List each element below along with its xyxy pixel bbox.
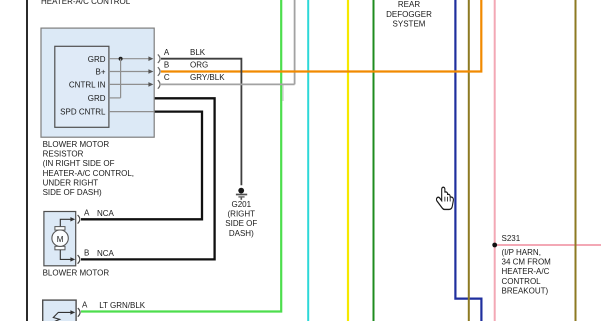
svg-text:REAR: REAR [398,0,420,9]
svg-text:GRD: GRD [88,55,106,64]
wire: ORG orange from pin B up to top [161,0,481,72]
wire: cyan vertical [307,0,309,321]
svg-text:C: C [164,73,170,82]
svg-text:(RIGHT: (RIGHT [228,210,256,219]
pin arc motor A [78,215,80,224]
svg-text:SIDE OF DASH): SIDE OF DASH) [43,188,102,197]
wire: pink vertical [494,0,496,321]
pin arc C [158,80,160,89]
wire: inner SPD CNTRL row 5 [109,111,154,113]
svg-text:NCA: NCA [97,249,115,258]
svg-text:G201: G201 [232,200,252,209]
svg-text:HEATER-A/C CONTROL,: HEATER-A/C CONTROL, [43,169,134,178]
svg-text:S231: S231 [502,234,521,243]
wire: yellow vertical [347,0,349,321]
ground G201 symbol [236,188,247,200]
connector: BLOWER MOTOR box [44,212,76,266]
wire: GRY/BLK vertical to top [294,0,296,84]
svg-text:CNTRL IN: CNTRL IN [69,80,106,89]
switch internal arrow symbol [53,312,71,321]
connector: blower switch box (bottom, cut off) [43,300,76,321]
svg-text:A: A [84,209,90,218]
wire: motor internal to pin B [60,250,71,260]
svg-text:GRD: GRD [88,94,106,103]
wire: left black bus vertical [26,0,28,321]
wire: inner GRD row 1 [109,58,150,60]
inner pin labels [60,55,106,117]
svg-text:RESISTOR: RESISTOR [43,150,84,159]
svg-text:DASH): DASH) [229,229,254,238]
node: REAR DEFOGGER SYSTEM [386,0,432,29]
svg-text:34 CM FROM: 34 CM FROM [502,258,552,267]
motor M symbol [52,227,68,250]
svg-text:NCA: NCA [97,209,115,218]
wire: motor internal to pin A [60,219,71,226]
svg-text:A: A [164,48,170,57]
connector: BLOWER MOTOR RESISTOR outer box [41,28,154,137]
svg-text:A: A [82,301,88,310]
svg-text:(IN RIGHT SIDE OF: (IN RIGHT SIDE OF [43,159,115,168]
wire: dark green vertical [373,0,375,321]
pin arc B [158,67,160,76]
svg-text:BREAKOUT): BREAKOUT) [502,287,549,296]
wire: olive vertical 2 (far right) [575,0,577,321]
svg-text:B: B [164,61,169,70]
wire: black wire 1 (resistor to blower pin B) [81,98,215,259]
svg-text:BLOWER MOTOR: BLOWER MOTOR [43,269,110,278]
node: resistor description block [43,140,134,197]
svg-text:HEATER-A/C: HEATER-A/C [502,267,550,276]
svg-text:SYSTEM: SYSTEM [393,20,426,29]
svg-text:B+: B+ [95,68,105,77]
node: junction dot row1 [119,57,123,61]
wire: GRY/BLK horizontal from pin C [161,83,295,85]
connector: inner component box [55,46,109,127]
wire: black wire 2 (SPD CNTRL to blower pin A) [81,112,202,220]
svg-text:SIDE OF: SIDE OF [225,219,257,228]
svg-text:HEATER-A/C CONTROL: HEATER-A/C CONTROL [41,0,131,6]
svg-text:BLOWER MOTOR: BLOWER MOTOR [43,140,110,149]
svg-text:UNDER RIGHT: UNDER RIGHT [43,178,99,187]
wire: inner GRD row 4 stub [109,97,121,99]
svg-text:LT GRN/BLK: LT GRN/BLK [99,301,146,310]
svg-text:ORG: ORG [190,61,208,70]
wire: navy vertical with bottom jog [455,0,481,321]
pin arc A [158,54,160,63]
svg-text:BLK: BLK [190,48,206,57]
node: S231 label block [502,234,552,296]
svg-text:(I/P HARN,: (I/P HARN, [502,248,541,257]
svg-text:B: B [84,249,89,258]
wire: olive vertical 1 [468,0,470,321]
node: S231 junction dot [492,243,497,248]
wire: BLK from pin A to G201 [161,59,241,186]
svg-text:DEFOGGER: DEFOGGER [386,10,432,19]
pin arc motor B [78,255,80,264]
svg-text:SPD CNTRL: SPD CNTRL [60,108,106,117]
wire: LT GRN/BLK vertical + bottom horizontal [81,0,281,312]
svg-text:M: M [57,235,64,244]
cursor: hand pointer [436,187,453,209]
wire: junction vertical joining rows 1 and 4 [120,59,122,98]
node: G201 label [225,200,257,238]
wire: pink branch right from S231 [495,244,601,246]
pin arc switch A [78,308,80,317]
wire: inner B+ row 2 [109,71,150,73]
svg-text:CONTROL: CONTROL [502,277,542,286]
svg-text:GRY/BLK: GRY/BLK [190,73,225,82]
wire: inner CNTRL IN row 3 [109,83,150,85]
wire: faint gray stub next to green line [282,85,284,102]
